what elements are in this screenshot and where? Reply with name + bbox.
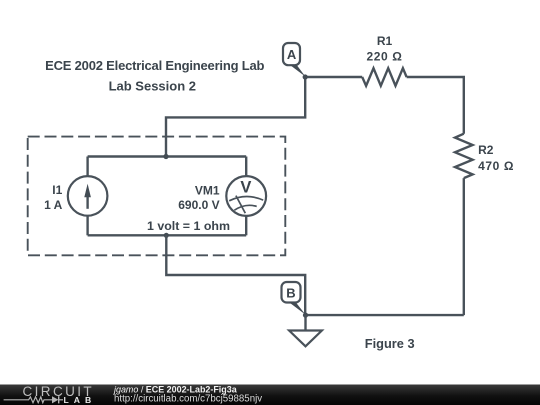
svg-text:VM1: VM1: [195, 183, 220, 197]
junction dot top inner node: [163, 154, 168, 159]
wire bottom node to node B branch: [166, 235, 305, 315]
svg-text:A: A: [287, 47, 297, 62]
ground symbol: [289, 331, 322, 347]
VM1 meter upper arc: [229, 197, 263, 201]
wire VM1 bottom lead: [245, 216, 247, 235]
node A flag box: [283, 43, 300, 65]
wire node A down-left branch: [166, 77, 305, 157]
svg-text:470 Ω: 470 Ω: [478, 159, 514, 173]
svg-text:V: V: [240, 179, 251, 197]
svg-text:R1: R1: [377, 34, 393, 48]
ground stem: [304, 315, 306, 330]
svg-text:LAB: LAB: [64, 395, 97, 405]
svg-text:ECE 2002 Electrical Engineerin: ECE 2002 Electrical Engineering Lab: [45, 58, 264, 73]
VM1 needle: [236, 196, 245, 214]
VM1 meter lower arc: [234, 205, 256, 210]
svg-text:Figure 3: Figure 3: [365, 336, 415, 351]
wire node A to R1 left lead: [305, 76, 362, 78]
node B pointer: [289, 302, 306, 315]
dashed boundary box: [28, 137, 286, 256]
node A pointer: [290, 65, 306, 77]
resistor R2: [455, 134, 473, 178]
logo diode: [52, 396, 58, 403]
junction dot node B: [303, 313, 308, 318]
wire bottom horizontal to node B: [305, 314, 463, 316]
footer bar: [0, 385, 540, 405]
wire R1 right lead to top of R2: [407, 77, 464, 134]
logo resistor squiggle: [4, 397, 52, 403]
wire R2 bottom lead down: [463, 178, 465, 315]
junction dot bottom inner node: [164, 233, 169, 238]
wire I1 top lead: [86, 157, 88, 177]
svg-text:B: B: [286, 285, 295, 300]
current source I1 circle: [68, 176, 108, 216]
logo diode bar: [58, 396, 60, 403]
svg-text:220 Ω: 220 Ω: [367, 50, 403, 64]
wire VM1 top lead: [245, 157, 247, 177]
svg-text:http://circuitlab.com/c7bcj598: http://circuitlab.com/c7bcj59885njv: [114, 394, 262, 405]
wire inner bottom horizontal: [88, 234, 247, 236]
voltmeter VM1 circle: [226, 176, 266, 216]
svg-text:Lab Session 2: Lab Session 2: [109, 79, 196, 94]
I1 arrow shaft: [86, 191, 88, 209]
I1 arrow head: [84, 184, 91, 197]
resistor R1: [362, 68, 406, 86]
svg-text:1 volt = 1 ohm: 1 volt = 1 ohm: [147, 219, 230, 233]
junction dot node A: [303, 74, 308, 79]
logo diode lead: [59, 399, 63, 401]
svg-text:690.0 V: 690.0 V: [178, 198, 219, 212]
svg-text:1 A: 1 A: [44, 198, 63, 212]
wire I1 bottom lead: [86, 216, 88, 236]
wire inner top horizontal: [88, 155, 247, 157]
node B flag box: [282, 282, 301, 303]
svg-text:I1: I1: [52, 183, 62, 197]
svg-text:R2: R2: [478, 143, 494, 157]
